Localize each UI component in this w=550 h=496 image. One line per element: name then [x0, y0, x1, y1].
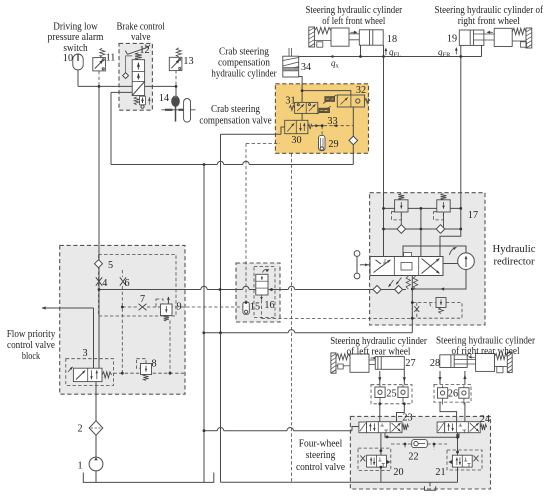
svg-text:3: 3	[82, 348, 87, 359]
svg-text:24: 24	[480, 414, 490, 425]
svg-text:redirector: redirector	[494, 257, 536, 268]
svg-text:33: 33	[327, 116, 337, 127]
svg-text:31: 31	[285, 96, 295, 107]
svg-text:Steering hydraulic cylinder: Steering hydraulic cylinder	[305, 5, 402, 16]
svg-text:9: 9	[176, 302, 181, 313]
svg-text:of left rear wheel: of left rear wheel	[347, 347, 411, 358]
svg-text:30: 30	[291, 135, 301, 146]
svg-text:21: 21	[435, 467, 445, 478]
svg-text:control valve: control valve	[7, 340, 55, 351]
svg-text:4: 4	[102, 278, 107, 289]
svg-text:26: 26	[448, 389, 458, 400]
svg-text:Four-wheel: Four-wheel	[299, 439, 343, 450]
svg-text:compensation: compensation	[218, 58, 270, 69]
svg-text:17: 17	[468, 210, 478, 221]
svg-text:Driving low: Driving low	[53, 21, 98, 32]
svg-text:Hydraulic: Hydraulic	[493, 244, 536, 255]
svg-text:23: 23	[402, 413, 412, 424]
svg-text:Crab steering: Crab steering	[219, 47, 269, 58]
svg-text:6: 6	[124, 278, 129, 289]
svg-text:11: 11	[106, 53, 116, 64]
svg-text:5: 5	[108, 260, 113, 271]
svg-text:steering: steering	[306, 450, 336, 461]
svg-text:29: 29	[328, 139, 338, 150]
svg-text:Steering hydraulic cylinder: Steering hydraulic cylinder	[436, 336, 536, 347]
svg-text:2: 2	[77, 424, 82, 435]
svg-text:pressure alarm: pressure alarm	[48, 32, 104, 43]
svg-text:27: 27	[405, 358, 415, 369]
svg-text:8: 8	[151, 359, 156, 370]
svg-text:13: 13	[183, 56, 193, 67]
svg-text:1: 1	[77, 461, 82, 472]
svg-text:of left front wheel: of left front wheel	[322, 16, 385, 27]
svg-text:hydraulic cylinder: hydraulic cylinder	[211, 69, 277, 80]
svg-text:34: 34	[301, 62, 311, 73]
svg-text:compensation valve: compensation valve	[199, 115, 272, 126]
svg-text:Flow priority: Flow priority	[7, 329, 56, 340]
svg-text:Steering hydraulic cylinder of: Steering hydraulic cylinder of	[435, 5, 544, 16]
svg-text:Crab steering: Crab steering	[211, 104, 260, 115]
svg-text:control valve: control valve	[296, 462, 346, 473]
svg-text:14: 14	[159, 93, 169, 104]
svg-text:block: block	[22, 351, 41, 362]
svg-text:18: 18	[387, 34, 397, 45]
svg-text:32: 32	[356, 85, 366, 96]
svg-text:20: 20	[393, 467, 403, 478]
svg-text:25: 25	[386, 389, 396, 400]
svg-text:28: 28	[430, 358, 440, 369]
svg-text:10: 10	[63, 53, 73, 64]
svg-text:12: 12	[139, 45, 149, 56]
svg-text:Steering hydraulic cylinder: Steering hydraulic cylinder	[330, 336, 427, 347]
svg-text:22: 22	[408, 452, 418, 463]
svg-text:19: 19	[447, 34, 457, 45]
svg-text:of right rear wheel: of right rear wheel	[452, 346, 520, 357]
svg-text:Brake control: Brake control	[117, 21, 166, 32]
svg-text:right front wheel: right front wheel	[458, 16, 520, 27]
svg-text:15: 15	[250, 302, 260, 313]
svg-text:16: 16	[264, 300, 274, 311]
svg-text:7: 7	[140, 294, 145, 305]
svg-text:valve: valve	[131, 32, 151, 43]
